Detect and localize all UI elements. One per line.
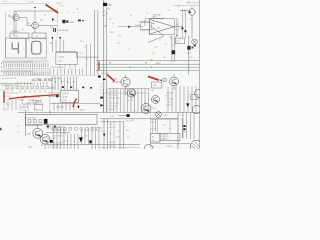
capacitor C62 blob (100, 97, 103, 99)
capacitor C63 blob (56, 95, 58, 98)
connector J2 pin ticks (50, 69, 83, 75)
wire top border (0, 3, 47, 5)
scan noise (0, 0, 1, 1)
svg-text:22 0: 22 0 (117, 43, 120, 45)
diode D20 arrow (77, 106, 79, 109)
wire K1 tick (49, 110, 51, 115)
relay box K2 (151, 133, 161, 142)
svg-text:2 2 0: 2 2 0 (79, 53, 83, 55)
svg-text:1 0 5 4 7: 1 0 5 4 7 (109, 109, 115, 111)
svg-text:1 0 5 2 2 0 1 0 4: 1 0 5 2 2 0 1 0 4 (109, 98, 121, 100)
capacitor C40 blob (103, 3, 107, 6)
capacitor C64 blobs (82, 87, 84, 89)
capacitor C72 blob (89, 140, 91, 143)
lamp X2 circled-X (156, 112, 162, 118)
wire bundle BC d (92, 127, 99, 150)
junction red dot 3 (129, 67, 130, 68)
svg-text:4 7 1 0 5: 4 7 1 0 5 (150, 129, 156, 131)
resistor box R61 (191, 95, 199, 100)
svg-text:1 0 4 7 1 05: 1 0 4 7 1 05 (3, 96, 11, 98)
ground tab left (0, 128, 1, 131)
wire box U3 outline (14, 11, 57, 36)
svg-text:4 05 1: 4 05 1 (80, 110, 85, 112)
svg-text:1 0 5 2 2 0: 1 0 5 2 2 0 (62, 141, 69, 143)
annotation red slash ic (73, 98, 77, 107)
transistor Q4 (121, 77, 130, 86)
wire verts L3 (8, 99, 16, 110)
wire corner up (145, 19, 164, 26)
wire Q8 lead (38, 124, 46, 149)
svg-text:105: 105 (40, 20, 43, 22)
svg-text:10: 10 (146, 13, 148, 15)
resistor box R50 (175, 38, 184, 44)
lamp X1 circled-X (192, 39, 198, 45)
svg-text:1 0 4 2 2 0 1 0 5: 1 0 4 2 2 0 1 0 5 (47, 145, 58, 147)
resistor row L1 (6, 87, 48, 89)
op-amp U2 box (150, 18, 175, 34)
svg-text:1 05 104 22: 1 05 104 22 (56, 106, 65, 108)
wire Q5 verticals (182, 11, 185, 39)
svg-text:1 05: 1 05 (59, 61, 62, 63)
svg-text:1 05: 1 05 (109, 19, 112, 21)
op-amp U2 inputs (152, 22, 154, 29)
wire under K1 (26, 125, 43, 127)
svg-text:2 2 0 1 0: 2 2 0 1 0 (166, 105, 172, 107)
transistor Q10 (152, 96, 160, 104)
svg-text:4 7: 4 7 (168, 10, 170, 12)
svg-text:1 1 1 1 1 1 1 1 1 1 1 1 1 1 1: 1 1 1 1 1 1 1 1 1 1 1 1 1 1 1 1 1 1 1 (4, 71, 33, 73)
wire BR bottom (150, 143, 190, 145)
svg-text:4 05 10 22 4: 4 05 10 22 4 (2, 85, 11, 87)
capacitor C50 blobs (187, 46, 190, 50)
junction red dot 1 (109, 62, 110, 63)
svg-text:c 1815: c 1815 (113, 79, 118, 81)
svg-text:+E50 12: +E50 12 (63, 93, 69, 95)
wire Q5 ticks (182, 9, 184, 11)
resistor box RA1 (10, 33, 29, 39)
wire col50 (49, 96, 51, 113)
wire Q7 leads (173, 74, 175, 90)
display digit 0 (32, 41, 41, 54)
svg-text:40c: 40c (27, 133, 30, 135)
svg-text:10 22: 10 22 (63, 100, 67, 102)
svg-text:10.2: 10.2 (157, 27, 160, 29)
svg-text:1 0: 1 0 (110, 124, 112, 126)
svg-text:1 05: 1 05 (131, 120, 134, 122)
svg-text:1 05: 1 05 (14, 36, 17, 38)
wire dotted row (55, 12, 79, 14)
svg-text:1 0 5 2 2 0 1 0 4 4 7: 1 0 5 2 2 0 1 0 4 4 7 (52, 130, 66, 132)
wire mid cluster (17, 97, 44, 104)
diode D13 (128, 26, 130, 28)
svg-text:4 7 2 2: 4 7 2 2 (60, 6, 65, 8)
wire bundle FR (168, 87, 196, 113)
svg-text:10: 10 (36, 36, 38, 38)
svg-text:1 0: 1 0 (100, 83, 102, 85)
capacitor C74 blobs (183, 125, 185, 127)
svg-text:105 7 102: 105 7 102 (153, 15, 161, 17)
connector J1 pin ticks A (4, 63, 48, 67)
svg-text:2 2: 2 2 (186, 122, 188, 124)
wire Q2 emitter (38, 25, 57, 27)
svg-text:1 0 5 2 2 0: 1 0 5 2 2 0 (110, 91, 117, 93)
svg-text:4 1 4: 4 1 4 (29, 1, 33, 3)
junction dot tr (176, 35, 177, 36)
svg-text:105 105 104: 105 105 104 (58, 30, 68, 32)
wire BCR h3 (100, 146, 140, 148)
wire verts L (18, 82, 47, 87)
wire C73 lead (118, 115, 127, 117)
wire tr2 verts (172, 36, 175, 62)
svg-text:105: 105 (190, 57, 193, 59)
svg-text:05: 05 (41, 145, 43, 147)
svg-text:4 7 0: 4 7 0 (34, 109, 38, 111)
svg-text:04 05: 04 05 (28, 147, 32, 149)
wire wedge lower (148, 36, 164, 42)
ic U1 pin wires bottom (54, 103, 74, 111)
wire K1 left (25, 110, 27, 136)
capacitor C73 blob (127, 114, 130, 117)
svg-text:1 0 5 4: 1 0 5 4 (151, 108, 156, 110)
bus wire 1 (96, 60, 199, 62)
annotation red slash mid (107, 74, 115, 81)
svg-text:10 4: 10 4 (176, 30, 179, 32)
wire Q5 base (180, 10, 189, 12)
svg-text:4 7 2 2: 4 7 2 2 (165, 96, 170, 98)
ic box U5 (160, 133, 180, 140)
svg-text:1 0: 1 0 (128, 49, 130, 51)
wire r vert mid (188, 36, 190, 62)
display DS1 left box (5, 38, 25, 58)
diode D24 arrow (100, 104, 103, 107)
svg-text:1 0: 1 0 (181, 115, 183, 117)
svg-text:c 0: c 0 (18, 126, 20, 128)
svg-text:4 7 1 0 4 2 2: 4 7 1 0 4 2 2 (109, 94, 118, 96)
transistor Q2 (32, 22, 39, 29)
capacitor C75 blobs (47, 125, 49, 127)
svg-text:1 05: 1 05 (177, 6, 180, 8)
svg-text:1 05 0: 1 05 0 (163, 115, 168, 117)
svg-text:1c4: 1c4 (107, 8, 110, 10)
resistor row BC (53, 128, 100, 131)
wire Q4 leads (112, 75, 126, 96)
svg-text:4(0--0': 4(0--0' (156, 63, 162, 65)
svg-text:1 0: 1 0 (159, 40, 161, 42)
wire BR v2 (177, 113, 179, 150)
svg-text:4 7: 4 7 (191, 97, 193, 99)
svg-text:1 0 5 4 7: 1 0 5 4 7 (150, 121, 156, 123)
bus wire 2 (96, 63, 199, 65)
wire right page edge (198, 0, 200, 149)
wire U4 stubs (60, 64, 75, 69)
wire bundle BC a (54, 127, 65, 150)
svg-text:1 0: 1 0 (169, 128, 171, 130)
svg-text:2 2 0: 2 2 0 (163, 125, 167, 127)
capacitor C51 blob (172, 50, 176, 54)
transistor Q7 (170, 77, 179, 86)
wire BCR h2 (100, 121, 124, 123)
capacitor C28 blob (52, 19, 54, 21)
svg-text:220: 220 (154, 85, 157, 87)
svg-text:1 0 4 2 2: 1 0 4 2 2 (109, 142, 115, 144)
wire tick marks A (103, 11, 108, 15)
svg-text:10 4: 10 4 (50, 27, 53, 29)
annotation red underline (9, 95, 60, 99)
wire wedge upper (150, 26, 164, 36)
svg-text:2 2 0: 2 2 0 (109, 134, 113, 136)
wire U2 top (140, 21, 150, 23)
svg-text:1 05 4: 1 05 4 (110, 116, 115, 118)
svg-text:E-2(1): E-2(1) (50, 126, 55, 128)
svg-text:c 4: c 4 (8, 14, 10, 16)
capacitor C60 blob (98, 76, 101, 78)
svg-text:4 7: 4 7 (155, 47, 157, 49)
svg-text:10: 10 (44, 15, 46, 17)
svg-text:1 0 4: 1 0 4 (183, 132, 187, 134)
svg-text:4 1 4 1 4 1 4 1: 4 1 4 1 4 1 4 1 (52, 78, 62, 80)
transistor Q12 arc (144, 144, 153, 148)
svg-text:4 7: 4 7 (127, 137, 129, 139)
wire BR v4 (183, 113, 194, 140)
svg-text:2 2: 2 2 (190, 19, 192, 21)
svg-text:10: 10 (130, 15, 132, 17)
svg-text:4 7: 4 7 (181, 119, 183, 121)
svg-text:105 10: 105 10 (135, 25, 140, 27)
wire bundle BCR2 (120, 122, 124, 149)
bus wire teal (100, 66, 199, 68)
svg-text:4 7 1 0 5: 4 7 1 0 5 (109, 127, 115, 129)
svg-text:c 4: c 4 (112, 23, 114, 25)
resistor box R40 (141, 22, 152, 29)
transistor Q14 clipped (195, 90, 203, 98)
wire under U1 (50, 103, 100, 105)
transistor Q13 (127, 89, 135, 97)
svg-text:1 0 4: 1 0 4 (133, 111, 137, 113)
op-amp U2 (150, 20, 174, 35)
annotation red bar (3, 91, 5, 103)
display digit 4 (12, 42, 19, 53)
wire bundle BCR3 (111, 122, 115, 149)
transistor Q8 (33, 128, 43, 138)
svg-text:0 5: 0 5 (100, 87, 102, 89)
svg-text:10 5: 10 5 (187, 1, 190, 3)
transistor Q9 (40, 134, 50, 144)
svg-text:2S: 2S (28, 23, 30, 25)
svg-text:10: 10 (172, 45, 174, 47)
component cluster LM (33, 99, 41, 103)
bus crossing vert (188, 62, 190, 75)
wire tl inner rail (56, 8, 58, 38)
svg-text:1 05 2 2: 1 05 2 2 (166, 146, 172, 148)
diode D12 (59, 37, 61, 40)
wire MR h2 (100, 92, 148, 94)
transistor Q1 (13, 14, 19, 20)
component row in K1 (28, 119, 42, 122)
svg-text:10 4 c2: 10 4 c2 (59, 57, 65, 59)
svg-text:1 0 5: 1 0 5 (3, 1, 7, 3)
resistor box RA2 (32, 33, 46, 39)
svg-text:4↓47 10↓: 4↓47 10↓ (49, 88, 56, 90)
wire BR v5 (153, 119, 171, 133)
svg-text:2 2 0 1 0 5: 2 2 0 1 0 5 (110, 106, 117, 108)
svg-text:4 7 1 0 5: 4 7 1 0 5 (60, 133, 66, 135)
svg-text:4 7: 4 7 (22, 29, 24, 31)
wire MR h1 (108, 88, 150, 90)
svg-text:47 1: 47 1 (152, 53, 155, 55)
svg-text:2 2 0 1 0: 2 2 0 1 0 (162, 138, 168, 140)
wire left of U1 (48, 84, 61, 97)
svg-text:4 7 4 7 4 7 4 7 4: 4 7 4 7 4 7 4 7 4 (51, 67, 64, 69)
svg-text:2 2 0 1 0: 2 2 0 1 0 (109, 145, 115, 147)
svg-text:1 0 4 7: 1 0 4 7 (128, 100, 133, 102)
wire BR v1 (155, 119, 157, 132)
display DS1 right box (27, 38, 46, 58)
svg-text:1 0 5 2 2 0: 1 0 5 2 2 0 (166, 93, 174, 95)
svg-text:4 7 1 0: 4 7 1 0 (84, 135, 89, 137)
svg-text:E-5: E-5 (101, 127, 104, 129)
wire mid left h1 (0, 83, 33, 85)
svg-text:A50: A50 (109, 3, 112, 6)
diode D21 arrow (186, 103, 189, 107)
wire extra verticals center (87, 44, 91, 75)
svg-text:22 0: 22 0 (118, 36, 121, 38)
ic U1 box (61, 90, 79, 102)
capacitor C70 blob (44, 119, 48, 124)
svg-text:10 4: 10 4 (6, 104, 9, 106)
svg-text:4 7: 4 7 (117, 130, 119, 132)
wire BR h1 (150, 118, 178, 120)
svg-text:1 0: 1 0 (18, 132, 20, 134)
svg-text:1 05 4 7: 1 05 4 7 (162, 134, 168, 136)
ic U1 pin arrows (55, 81, 74, 82)
wire tr verts (176, 18, 178, 36)
transistor Q6 (141, 104, 151, 114)
wire bundle BC c (82, 129, 89, 145)
svg-text:1 05 22: 1 05 22 (186, 52, 191, 54)
svg-text:1 0: 1 0 (101, 130, 103, 132)
svg-text:4 05 10 4 22: 4 05 10 4 22 (101, 73, 110, 75)
svg-text:LC7f8l- 8T5O: LC7f8l- 8T5O (32, 78, 53, 82)
svg-text:2 2 1 0 4 1 0: 2 2 1 0 4 1 0 (47, 138, 56, 140)
transistor Q3 small (163, 78, 167, 82)
wire BC h short (46, 132, 70, 134)
wire bundle MR (104, 89, 149, 112)
connector J1 pin ticks B (4, 73, 48, 76)
svg-text:10: 10 (84, 47, 86, 49)
relay box K1 (26, 115, 98, 125)
bus left terminals (1, 63, 3, 72)
svg-text:1 0 5 1 0 4 2 2 0 1 0: 1 0 5 1 0 4 2 2 0 1 0 (4, 93, 18, 95)
svg-text:4 7 1 0 4: 4 7 1 0 4 (167, 99, 173, 101)
wire divider mid (18, 112, 199, 114)
wire Q1 base (11, 17, 13, 19)
svg-text:10: 10 (152, 140, 154, 142)
svg-text:4 1 4 1 4 1 4 1 4: 4 1 4 1 4 1 4 1 4 (30, 74, 41, 76)
svg-text:1 4 1 4 1 4 1 4 1 4 1 4 1 4 1: 1 4 1 4 1 4 1 4 1 4 1 4 1 4 1 4 1 4 1 (4, 61, 33, 63)
wire BC bus (46, 144, 140, 146)
svg-text:1 0 5: 1 0 5 (116, 136, 120, 138)
wire step (56, 52, 99, 58)
svg-text:+105: +105 (70, 22, 74, 24)
capacitor C52 blob (181, 27, 183, 29)
paper background (0, 0, 200, 149)
wire U2 out (174, 26, 183, 28)
motor M1 hatched circle (190, 140, 202, 152)
svg-text:1 0 5 2 2 0 4: 1 0 5 2 2 0 4 (27, 117, 36, 119)
capacitor C61 blob (103, 79, 106, 81)
capacitor C30 dash (78, 20, 81, 22)
wire BR v3 (181, 119, 183, 138)
svg-text:0 4: 0 4 (4, 109, 6, 111)
svg-text:2 2 0: 2 2 0 (168, 102, 172, 104)
wire verts L4 (4, 104, 28, 111)
wire Q1 collector (15, 11, 17, 33)
junction red dot 4 (151, 67, 152, 68)
svg-text:1 0 4: 1 0 4 (152, 99, 156, 101)
wire verticals mid-top (95, 10, 98, 75)
diode D22 arrow (79, 137, 83, 142)
wire left rail (5, 12, 7, 58)
ic U1 pin wires top (52, 77, 76, 91)
svg-text:05: 05 (152, 136, 154, 138)
wire Q2 base (19, 11, 35, 33)
svg-text:1 0 5 2 2 0 4 7: 1 0 5 2 2 0 4 7 (47, 128, 57, 130)
wire bundle BCR1 (104, 119, 108, 149)
svg-text:1) 5: 1) 5 (176, 41, 179, 43)
wire quad border (149, 113, 151, 150)
capacitor C29 cluster (62, 20, 65, 23)
svg-text:220: 220 (49, 43, 52, 45)
annotation red slash top (46, 5, 59, 13)
wire verts L2 (20, 89, 45, 93)
connector underlay A (2, 60, 49, 63)
diode D11 (52, 37, 54, 40)
svg-text:1 0 5: 1 0 5 (151, 90, 155, 92)
bus wire 4 (96, 70, 199, 72)
ic box U4 (56, 52, 78, 64)
svg-text:1 0 5: 1 0 5 (126, 130, 130, 132)
wire bundle BC b (68, 134, 79, 150)
svg-text:105: 105 (163, 57, 166, 59)
capacitor C31 bars (54, 28, 56, 32)
svg-text:1 05 10 c: 1 05 10 c (56, 2, 62, 4)
svg-text:105 4: 105 4 (110, 32, 114, 34)
svg-text:4 7: 4 7 (100, 90, 102, 92)
svg-text:c4 105: c4 105 (63, 97, 68, 99)
wire long vertical B (106, 8, 108, 113)
wire Q5 collector (191, 15, 193, 38)
svg-text:4 7 1 0 5 2 2: 4 7 1 0 5 2 2 (54, 136, 63, 138)
transistor Q5 (189, 9, 195, 15)
svg-text:4 c 4 c 4 1 4 c 4 1 4: 4 c 4 c 4 1 4 c 4 1 4 (2, 78, 16, 80)
svg-text:10 5: 10 5 (76, 8, 79, 10)
annotation red tick bus (98, 62, 100, 71)
svg-text:4 7 1 0 2 2 5: 4 7 1 0 2 2 5 (110, 103, 119, 105)
resistor box R60 (152, 82, 162, 88)
diode D23 arrow (103, 134, 105, 137)
wire BCR h1 (100, 118, 178, 120)
svg-text:1 05 10: 1 05 10 (26, 103, 31, 105)
wire D11 leads (52, 40, 63, 52)
capacitor C71 blob (50, 140, 53, 143)
connector J1 dots (4, 67, 48, 70)
wire mid left h2 (0, 89, 14, 91)
wire tr corner (173, 3, 199, 9)
svg-text:1 0 5 2: 1 0 5 2 (150, 146, 155, 148)
svg-text:1 0 5 4 7 2 2 0 1 0: 1 0 5 4 7 2 2 0 1 0 (50, 143, 63, 145)
svg-text:220: 220 (104, 25, 107, 27)
transistor Q11 (192, 105, 200, 113)
